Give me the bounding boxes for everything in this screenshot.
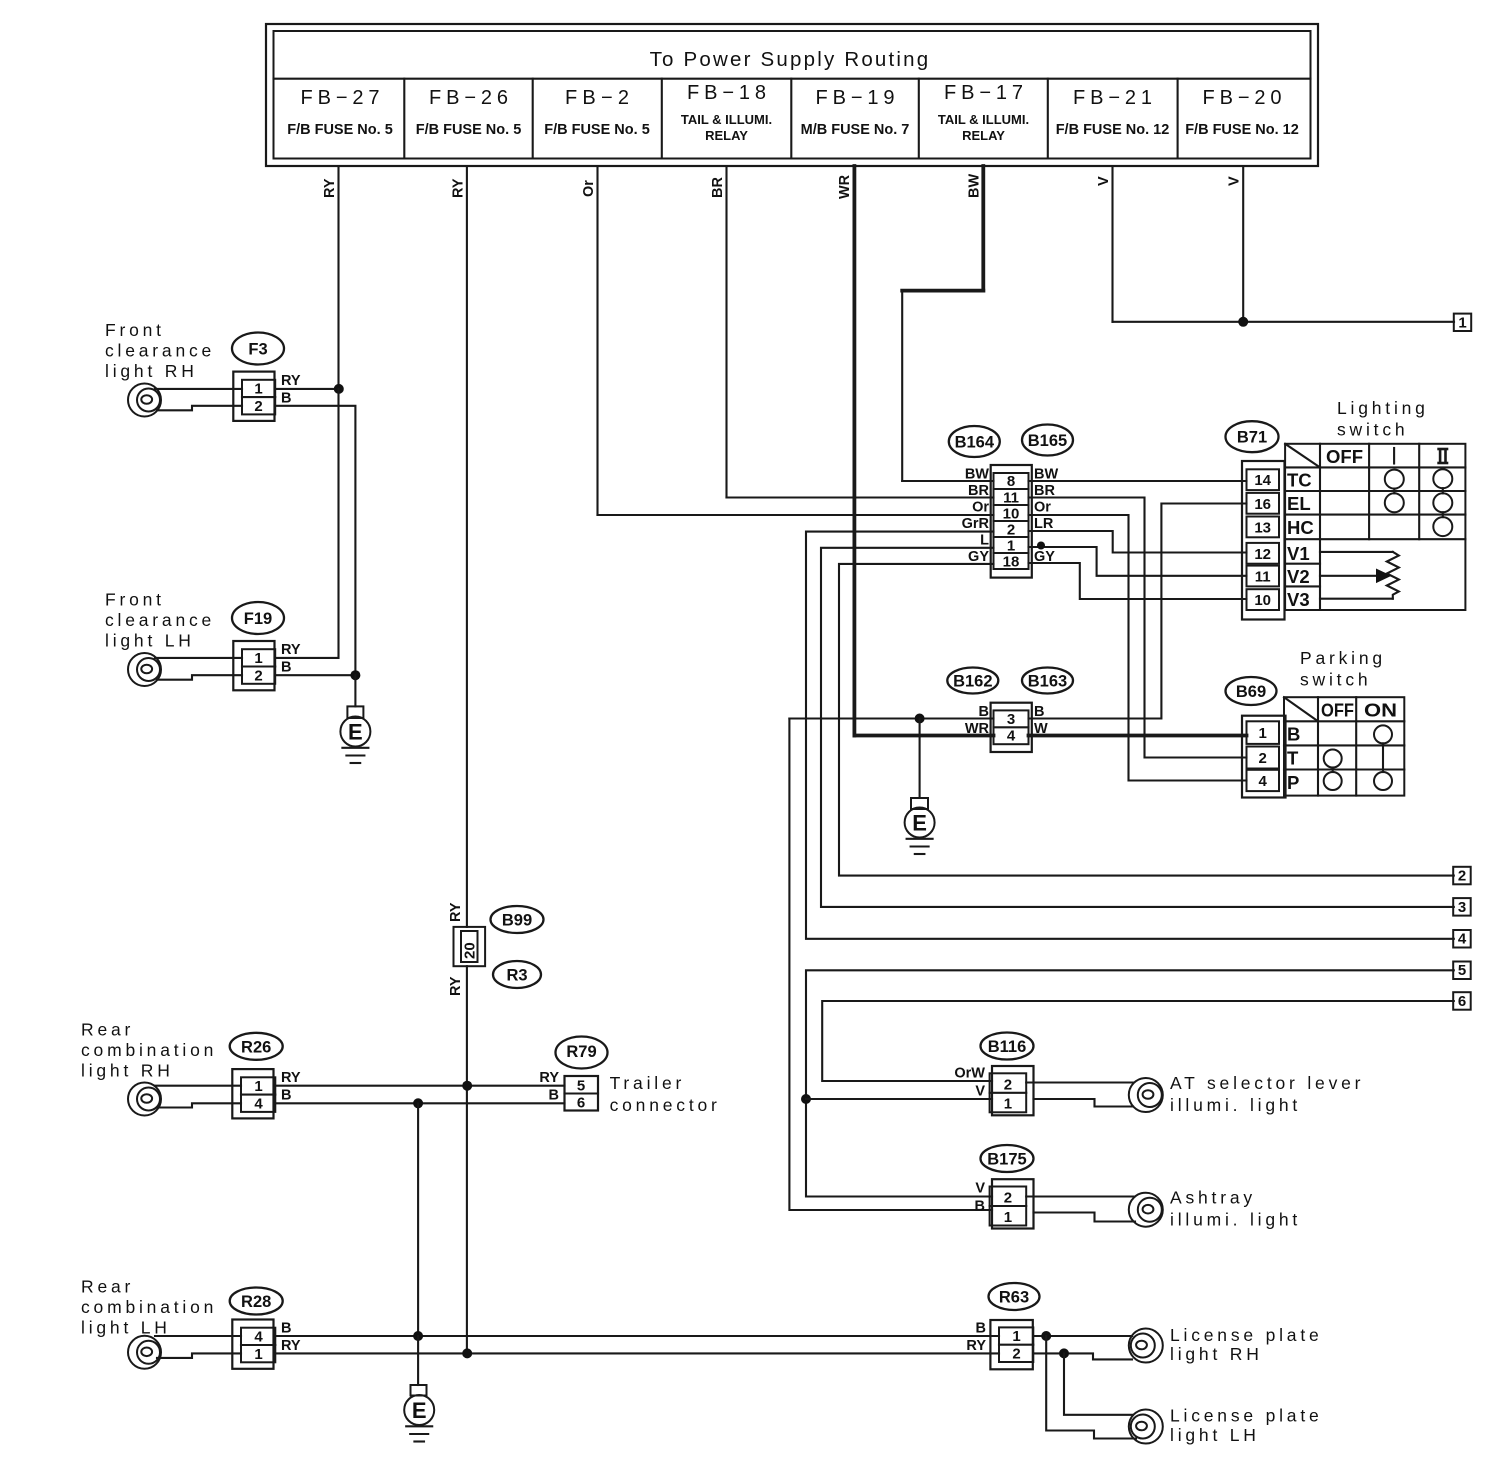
svg-text:B69: B69 bbox=[1236, 683, 1266, 701]
wire B down to license LH bulb bbox=[1046, 1336, 1136, 1439]
contact link line OFF bbox=[1332, 768, 1334, 773]
bulb AT selector bbox=[1129, 1078, 1163, 1112]
inner frame bbox=[274, 31, 1311, 159]
svg-text:B: B bbox=[281, 1321, 291, 1337]
connector ref B163 bbox=[1022, 668, 1073, 694]
svg-text:14: 14 bbox=[1254, 472, 1271, 489]
R63 wire labels bbox=[966, 1321, 986, 1355]
svg-text:License plate: License plate bbox=[1170, 1406, 1323, 1426]
wire B down to R28 bbox=[417, 1103, 419, 1336]
label rear combination light RH bbox=[81, 1020, 217, 1081]
svg-text:HC: HC bbox=[1287, 517, 1314, 538]
svg-text:OFF: OFF bbox=[1321, 700, 1354, 721]
B163 right wire labels bbox=[1034, 704, 1048, 737]
svg-text:Rear: Rear bbox=[81, 1020, 134, 1040]
connector ref B99 bbox=[491, 906, 544, 933]
wire B116 pin1 to bulb bbox=[1034, 1099, 1134, 1107]
svg-text:WR: WR bbox=[965, 721, 990, 737]
svg-text:8: 8 bbox=[1007, 473, 1015, 490]
wire R28 pin1 RY to R63 bbox=[275, 1352, 999, 1354]
wire LR pin2 right to B71 pin12 bbox=[1029, 531, 1247, 553]
svg-text:F19: F19 bbox=[244, 610, 272, 628]
svg-text:Rear: Rear bbox=[81, 1277, 134, 1297]
svg-text:1: 1 bbox=[1007, 538, 1015, 555]
wire B down to ground bbox=[919, 719, 921, 799]
wire R63 pin2 RY bbox=[1033, 1353, 1132, 1359]
svg-text:R26: R26 bbox=[241, 1038, 271, 1056]
svg-text:switch: switch bbox=[1337, 420, 1408, 440]
svg-text:BW: BW bbox=[967, 174, 983, 198]
B165 right wire labels bbox=[1034, 467, 1058, 566]
svg-text:B99: B99 bbox=[502, 912, 532, 930]
svg-text:B: B bbox=[1287, 724, 1300, 745]
svg-text:P: P bbox=[1287, 772, 1299, 793]
connector ref B69 bbox=[1226, 677, 1277, 705]
bulb rear combination LH bbox=[128, 1336, 161, 1369]
svg-text:Or: Or bbox=[581, 180, 597, 197]
svg-text:E: E bbox=[912, 810, 927, 835]
svg-text:clearance: clearance bbox=[105, 341, 215, 361]
svg-text:RY: RY bbox=[281, 373, 301, 389]
svg-text:clearance: clearance bbox=[105, 610, 215, 630]
svg-text:B: B bbox=[281, 1088, 291, 1104]
svg-text:OFF: OFF bbox=[1326, 446, 1363, 467]
wire bulb to R26 pin1 bbox=[155, 1085, 241, 1087]
wire RY down to F19 bbox=[275, 389, 338, 658]
svg-text:ON: ON bbox=[1364, 700, 1397, 721]
wire B pin3 left bbox=[789, 717, 993, 719]
svg-text:11: 11 bbox=[1003, 490, 1019, 507]
svg-text:5: 5 bbox=[1458, 962, 1466, 979]
label license plate light LH bbox=[1170, 1406, 1323, 1446]
connector B175 bbox=[990, 1179, 1034, 1228]
svg-text:R3: R3 bbox=[506, 967, 527, 985]
svg-text:6: 6 bbox=[1458, 993, 1466, 1010]
connector B69 bbox=[1242, 716, 1286, 798]
terminal 1 bbox=[1454, 314, 1471, 332]
connector F3 bbox=[233, 372, 275, 421]
wire B175 pin1 to bulb bbox=[1034, 1213, 1136, 1222]
wire L pin1 left to terminal3 bbox=[821, 548, 1454, 907]
wire RY down to license LH bulb bbox=[1064, 1353, 1133, 1414]
connector R28 bbox=[232, 1320, 275, 1369]
junction RY trailer bbox=[462, 1081, 472, 1091]
wire V from FB-21 bbox=[1096, 166, 1454, 322]
junction V at B116 bbox=[801, 1094, 811, 1104]
wire F3 pin1 RY to junction bbox=[275, 388, 338, 390]
svg-text:WR: WR bbox=[837, 174, 853, 199]
junction B license bbox=[1041, 1331, 1051, 1341]
svg-text:FB−2: FB−2 bbox=[565, 87, 629, 109]
wire bulb to R28 pin1 bbox=[157, 1353, 241, 1358]
wire B116 pin2 to bulb bbox=[1026, 1081, 1133, 1083]
svg-text:18: 18 bbox=[1003, 554, 1020, 571]
wire RY from FB-27 bbox=[322, 166, 339, 389]
svg-text:R28: R28 bbox=[241, 1293, 271, 1311]
label AT selector lever illumi. light bbox=[1170, 1073, 1364, 1115]
connector B71 bbox=[1242, 461, 1285, 620]
svg-text:Ashtray: Ashtray bbox=[1170, 1188, 1256, 1208]
svg-text:TAIL & ILLUMI.: TAIL & ILLUMI. bbox=[938, 112, 1029, 127]
label license plate light RH bbox=[1170, 1325, 1323, 1364]
connector B116 bbox=[990, 1066, 1034, 1115]
B162 left wire labels bbox=[965, 704, 990, 737]
svg-text:To Power Supply Routing: To Power Supply Routing bbox=[650, 48, 931, 71]
rheostat wiper arrow bbox=[1320, 575, 1378, 577]
junction V wires bbox=[1238, 317, 1248, 327]
svg-text:TC: TC bbox=[1287, 470, 1312, 491]
svg-text:2: 2 bbox=[1259, 750, 1267, 767]
wire pin1 right to B71 pin11 bbox=[1029, 547, 1247, 576]
wire V to B116 pin1 bbox=[806, 1098, 992, 1100]
wire GrR pin2 left to terminal4 bbox=[806, 532, 1454, 939]
svg-text:FB−21: FB−21 bbox=[1073, 87, 1152, 109]
svg-text:light RH: light RH bbox=[105, 361, 198, 381]
svg-text:RY: RY bbox=[448, 902, 464, 922]
rheostat zigzag bbox=[1387, 552, 1399, 599]
svg-text:switch: switch bbox=[1300, 670, 1371, 690]
junction B ground bbox=[915, 714, 925, 724]
svg-text:V: V bbox=[975, 1084, 985, 1100]
B175 wire labels bbox=[975, 1181, 986, 1215]
wire B down to ground bbox=[354, 675, 356, 706]
svg-text:TAIL & ILLUMI.: TAIL & ILLUMI. bbox=[681, 112, 772, 127]
svg-text:BW: BW bbox=[965, 467, 989, 483]
label trailer connector bbox=[610, 1073, 721, 1115]
terminal 6 bbox=[1453, 992, 1471, 1010]
svg-text:5: 5 bbox=[577, 1077, 585, 1094]
contact circles bbox=[1385, 470, 1404, 489]
svg-text:4: 4 bbox=[1259, 773, 1268, 790]
bulb license plate RH bbox=[1129, 1329, 1163, 1363]
svg-text:4: 4 bbox=[1007, 728, 1016, 745]
contact links bbox=[1393, 489, 1395, 494]
ground E rear bbox=[404, 1385, 434, 1442]
wire BR from FB-18 bbox=[710, 166, 994, 498]
connector ref R28 bbox=[230, 1288, 283, 1315]
connector ref B116 bbox=[981, 1033, 1034, 1060]
svg-text:RY: RY bbox=[322, 178, 338, 198]
svg-text:10: 10 bbox=[1003, 506, 1020, 523]
bulb front clearance LH bbox=[128, 653, 161, 686]
svg-text:FB−17: FB−17 bbox=[944, 82, 1023, 104]
svg-text:16: 16 bbox=[1254, 496, 1271, 513]
svg-text:B163: B163 bbox=[1028, 673, 1067, 691]
svg-text:V3: V3 bbox=[1287, 589, 1310, 610]
svg-text:4: 4 bbox=[1458, 931, 1467, 948]
svg-text:FB−20: FB−20 bbox=[1203, 87, 1282, 109]
svg-text:connector: connector bbox=[610, 1095, 721, 1115]
svg-text:F/B FUSE No. 5: F/B FUSE No. 5 bbox=[287, 122, 393, 138]
connector ref R26 bbox=[230, 1033, 283, 1060]
svg-text:RY: RY bbox=[539, 1070, 559, 1086]
svg-text:1: 1 bbox=[1004, 1209, 1012, 1226]
svg-text:2: 2 bbox=[254, 398, 262, 415]
inline connector B99/R3 pin20 bbox=[454, 927, 486, 966]
terminal 3 bbox=[1453, 898, 1471, 916]
wire bulb to F3 pin1 bbox=[155, 388, 242, 390]
svg-text:light LH: light LH bbox=[1170, 1425, 1260, 1445]
svg-text:illumi. light: illumi. light bbox=[1170, 1210, 1301, 1230]
wire GY pin18 left to terminal2 bbox=[839, 564, 1454, 876]
wire R28 pin4 B to R63 bbox=[275, 1335, 999, 1337]
terminal 2 bbox=[1453, 867, 1471, 885]
wire R26 pin4 B to R79 bbox=[275, 1102, 564, 1104]
connector ref R63 bbox=[989, 1283, 1040, 1310]
svg-text:10: 10 bbox=[1254, 592, 1271, 609]
wire bulb to F19 pin1 bbox=[155, 657, 242, 659]
svg-text:V1: V1 bbox=[1287, 543, 1310, 564]
junction RY at F3 bbox=[334, 384, 344, 394]
svg-text:Or: Or bbox=[972, 500, 989, 516]
svg-text:V: V bbox=[1096, 176, 1112, 186]
svg-text:V: V bbox=[1227, 176, 1243, 186]
wire R26 pin1 RY to R79 bbox=[275, 1085, 564, 1087]
svg-text:F3: F3 bbox=[248, 341, 267, 359]
terminal 4 bbox=[1453, 930, 1471, 948]
svg-text:B116: B116 bbox=[988, 1038, 1027, 1056]
svg-text:RY: RY bbox=[281, 1070, 301, 1086]
svg-text:1: 1 bbox=[254, 1078, 262, 1095]
lighting switch table bbox=[1285, 444, 1465, 610]
connector ref F3 bbox=[232, 333, 284, 365]
svg-text:4: 4 bbox=[254, 1329, 263, 1346]
svg-text:R79: R79 bbox=[566, 1043, 596, 1061]
wire BW from FB-17 (bold elbow) bbox=[902, 166, 993, 481]
wire to terminal 6 bbox=[822, 1001, 1454, 1081]
column dividers bbox=[403, 79, 405, 159]
svg-text:11: 11 bbox=[1255, 569, 1271, 586]
connector ref B162 bbox=[947, 668, 998, 694]
connector R79 bbox=[565, 1076, 599, 1111]
ground E front bbox=[340, 706, 370, 763]
R79 wire labels bbox=[539, 1070, 559, 1104]
svg-text:BR: BR bbox=[968, 483, 989, 499]
junction B trailer bbox=[413, 1098, 423, 1108]
svg-text:R63: R63 bbox=[999, 1289, 1029, 1307]
svg-text:RY: RY bbox=[281, 642, 301, 658]
svg-text:RY: RY bbox=[450, 178, 466, 198]
svg-text:1: 1 bbox=[254, 650, 262, 667]
svg-text:RELAY: RELAY bbox=[962, 128, 1005, 143]
wire RY from FB-26 bbox=[450, 166, 467, 1353]
svg-text:B175: B175 bbox=[987, 1151, 1026, 1169]
junction RY at R28 bbox=[462, 1348, 472, 1358]
svg-text:2: 2 bbox=[1012, 1346, 1020, 1363]
diagonal bbox=[1285, 444, 1320, 468]
terminal 5 bbox=[1453, 962, 1471, 980]
connector ref B165 bbox=[1022, 425, 1073, 456]
wire R63 pin1 to license RH bulb bbox=[1033, 1335, 1132, 1337]
svg-text:2: 2 bbox=[1458, 868, 1466, 885]
svg-text:RY: RY bbox=[448, 976, 464, 996]
svg-text:AT selector lever: AT selector lever bbox=[1170, 1073, 1364, 1093]
svg-text:GrR: GrR bbox=[962, 516, 990, 532]
wire F19 pin2 B to junction bbox=[275, 674, 355, 676]
svg-text:RY: RY bbox=[281, 1338, 301, 1354]
svg-text:B71: B71 bbox=[1237, 429, 1267, 447]
connector ref B175 bbox=[981, 1145, 1034, 1172]
label lighting switch bbox=[1337, 398, 1429, 440]
connector ref F19 bbox=[232, 602, 284, 634]
svg-text:2: 2 bbox=[1004, 1076, 1012, 1093]
contact circles bbox=[1374, 725, 1392, 743]
svg-text:6: 6 bbox=[577, 1094, 585, 1111]
wire BW pin8 right to B71 pin14 bbox=[1029, 480, 1247, 482]
connector R63 bbox=[990, 1320, 1033, 1369]
label rear combination light LH bbox=[81, 1277, 217, 1338]
svg-text:V2: V2 bbox=[1287, 566, 1310, 587]
junction RY license bbox=[1059, 1348, 1069, 1358]
rheostat V3 lead bbox=[1320, 598, 1393, 600]
svg-text:FB−19: FB−19 bbox=[816, 87, 895, 109]
bulb license plate LH bbox=[1129, 1410, 1163, 1444]
title separator bbox=[274, 78, 1311, 80]
label parking switch bbox=[1300, 648, 1386, 690]
svg-text:B: B bbox=[281, 660, 291, 676]
svg-text:1: 1 bbox=[1012, 1328, 1020, 1345]
svg-text:light LH: light LH bbox=[81, 1318, 171, 1338]
svg-text:13: 13 bbox=[1254, 519, 1271, 536]
connector ref B164 bbox=[949, 426, 1000, 457]
B164 left wire labels bbox=[962, 467, 990, 566]
svg-text:4: 4 bbox=[254, 1095, 263, 1112]
svg-text:B: B bbox=[281, 391, 291, 407]
svg-text:illumi. light: illumi. light bbox=[1170, 1095, 1301, 1115]
svg-text:T: T bbox=[1287, 748, 1299, 769]
wire bulb to R28 pin4 bbox=[155, 1335, 241, 1337]
svg-text:2: 2 bbox=[1004, 1190, 1012, 1207]
svg-text:Front: Front bbox=[105, 590, 165, 610]
parking switch table bbox=[1284, 697, 1404, 795]
svg-text:12: 12 bbox=[1254, 546, 1271, 563]
svg-text:Lighting: Lighting bbox=[1337, 398, 1429, 418]
junction B at F19 bbox=[350, 670, 360, 680]
svg-text:V: V bbox=[975, 1181, 985, 1197]
svg-text:E: E bbox=[348, 719, 363, 744]
svg-text:Trailer: Trailer bbox=[610, 1073, 686, 1093]
label front clearance light RH bbox=[105, 320, 215, 381]
connector ref R3 bbox=[493, 961, 541, 988]
svg-text:B165: B165 bbox=[1028, 432, 1067, 450]
svg-text:combination: combination bbox=[81, 1297, 217, 1317]
svg-text:B: B bbox=[975, 1199, 985, 1215]
svg-text:FB−27: FB−27 bbox=[301, 87, 380, 109]
wire BR pin11 right to B69 pin2 bbox=[1029, 498, 1247, 758]
svg-text:light LH: light LH bbox=[105, 631, 195, 651]
label front clearance light LH bbox=[105, 590, 215, 651]
svg-text:20: 20 bbox=[462, 942, 479, 959]
svg-text:1: 1 bbox=[254, 381, 262, 398]
wire Or pin10 right to B69 pin4 bbox=[1029, 515, 1247, 781]
wire bulb to F19 pin2 bbox=[157, 675, 242, 680]
svg-text:OrW: OrW bbox=[954, 1066, 985, 1082]
svg-text:light RH: light RH bbox=[1170, 1344, 1263, 1364]
svg-text:M/B FUSE No. 7: M/B FUSE No. 7 bbox=[801, 122, 910, 138]
svg-text:combination: combination bbox=[81, 1040, 217, 1060]
wire B down to ground bbox=[417, 1336, 419, 1385]
svg-text:License plate: License plate bbox=[1170, 1325, 1323, 1345]
svg-text:FB−18: FB−18 bbox=[687, 82, 766, 104]
connector R26 bbox=[232, 1069, 275, 1118]
svg-text:2: 2 bbox=[254, 667, 262, 684]
svg-text:Or: Or bbox=[1034, 500, 1051, 516]
B116 wire labels bbox=[954, 1066, 985, 1100]
svg-text:EL: EL bbox=[1287, 493, 1311, 514]
wire V from FB-20 bbox=[1227, 166, 1244, 322]
connector B164/B165 bbox=[991, 465, 1032, 578]
power supply routing box bbox=[266, 24, 1318, 166]
connector F19 bbox=[233, 641, 275, 690]
wire to terminal 5 bbox=[806, 970, 1454, 1196]
svg-text:1: 1 bbox=[1004, 1096, 1012, 1113]
wire B175 pin2 to bulb bbox=[1026, 1195, 1134, 1197]
svg-text:Front: Front bbox=[105, 320, 165, 340]
svg-text:Parking: Parking bbox=[1300, 648, 1386, 668]
ground E middle bbox=[905, 798, 935, 854]
bulb rear combination RH bbox=[128, 1083, 161, 1116]
wire B pin3 to B71 pin16 EL bbox=[1029, 504, 1247, 719]
bulb front clearance RH bbox=[128, 384, 161, 417]
wire Or from FB-2 bbox=[581, 166, 994, 515]
diagonal bbox=[1284, 697, 1318, 721]
svg-text:1: 1 bbox=[254, 1346, 262, 1363]
svg-text:2: 2 bbox=[1007, 522, 1015, 539]
label ashtray illumi. light bbox=[1170, 1188, 1301, 1230]
svg-text:1: 1 bbox=[1458, 314, 1466, 331]
wire WR from FB-19 (bold) bbox=[837, 166, 994, 736]
svg-text:light RH: light RH bbox=[81, 1061, 174, 1081]
svg-text:F/B FUSE No. 5: F/B FUSE No. 5 bbox=[416, 122, 522, 138]
svg-text:B: B bbox=[549, 1088, 559, 1104]
svg-text:B162: B162 bbox=[953, 673, 992, 691]
connector ref B71 bbox=[1226, 421, 1279, 452]
svg-text:L: L bbox=[980, 533, 989, 549]
svg-text:3: 3 bbox=[1007, 711, 1015, 728]
contact link line ON bbox=[1382, 743, 1384, 772]
wire F3 pin2 B elbow bbox=[275, 406, 355, 675]
bulb ashtray bbox=[1129, 1193, 1163, 1227]
svg-text:FB−26: FB−26 bbox=[429, 87, 508, 109]
svg-text:B164: B164 bbox=[955, 434, 995, 452]
svg-text:F/B FUSE No. 12: F/B FUSE No. 12 bbox=[1056, 122, 1170, 138]
svg-text:1: 1 bbox=[1259, 725, 1267, 742]
rheostat V1 lead bbox=[1320, 551, 1393, 553]
svg-text:B: B bbox=[976, 1321, 986, 1337]
svg-text:RY: RY bbox=[966, 1338, 986, 1354]
svg-text:RELAY: RELAY bbox=[705, 128, 748, 143]
svg-text:BR: BR bbox=[710, 177, 726, 198]
wire bulb to R26 pin4 bbox=[157, 1103, 241, 1107]
outer frame bbox=[266, 24, 1318, 166]
wire GY pin18 right to B71 pin10 bbox=[1029, 563, 1247, 599]
svg-text:F/B FUSE No. 5: F/B FUSE No. 5 bbox=[544, 122, 650, 138]
junction B at R28 bbox=[413, 1331, 423, 1341]
svg-text:LR: LR bbox=[1034, 516, 1054, 532]
svg-text:E: E bbox=[412, 1398, 427, 1423]
svg-text:GY: GY bbox=[968, 549, 989, 565]
svg-text:F/B FUSE No. 12: F/B FUSE No. 12 bbox=[1185, 122, 1299, 138]
svg-text:3: 3 bbox=[1458, 899, 1466, 916]
connector B162/B163 bbox=[991, 703, 1032, 752]
wire W pin4 to B69 pin1 (bold) bbox=[1029, 734, 1247, 738]
pin1 wire mark bbox=[1037, 542, 1045, 550]
wire bulb to F3 pin2 bbox=[157, 406, 242, 411]
connector ref R79 bbox=[556, 1037, 608, 1069]
wire B left down to B175 pin1 bbox=[789, 719, 992, 1211]
